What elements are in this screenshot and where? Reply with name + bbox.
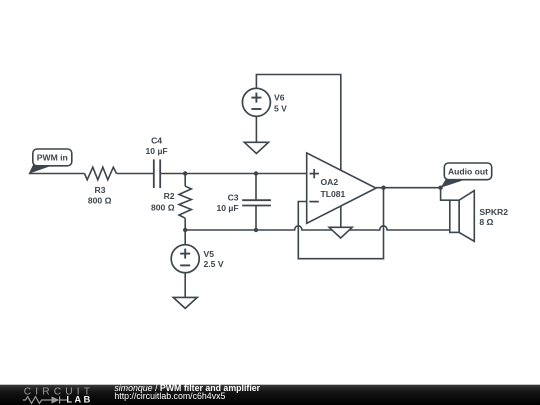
svg-text:2.5 V: 2.5 V bbox=[204, 259, 224, 269]
svg-text:PWM in: PWM in bbox=[37, 153, 68, 163]
svg-text:V5: V5 bbox=[204, 249, 215, 259]
svg-text:5 V: 5 V bbox=[274, 104, 287, 114]
svg-text:C3: C3 bbox=[228, 193, 239, 203]
svg-text:LAB: LAB bbox=[66, 394, 92, 405]
svg-text:800 Ω: 800 Ω bbox=[151, 202, 175, 212]
svg-text:800 Ω: 800 Ω bbox=[88, 196, 112, 206]
svg-text:R3: R3 bbox=[95, 185, 106, 195]
svg-text:Audio out: Audio out bbox=[448, 167, 488, 177]
svg-text:TL081: TL081 bbox=[321, 189, 346, 199]
svg-text:http://circuitlab.com/c6h4vx5: http://circuitlab.com/c6h4vx5 bbox=[114, 391, 225, 401]
svg-text:SPKR2: SPKR2 bbox=[479, 207, 508, 217]
svg-text:OA2: OA2 bbox=[321, 177, 339, 187]
svg-text:8 Ω: 8 Ω bbox=[479, 217, 493, 227]
svg-text:10 µF: 10 µF bbox=[146, 146, 168, 156]
svg-text:R2: R2 bbox=[164, 191, 175, 201]
svg-text:C4: C4 bbox=[151, 135, 162, 145]
svg-text:10 µF: 10 µF bbox=[216, 203, 238, 213]
svg-text:V6: V6 bbox=[274, 93, 285, 103]
